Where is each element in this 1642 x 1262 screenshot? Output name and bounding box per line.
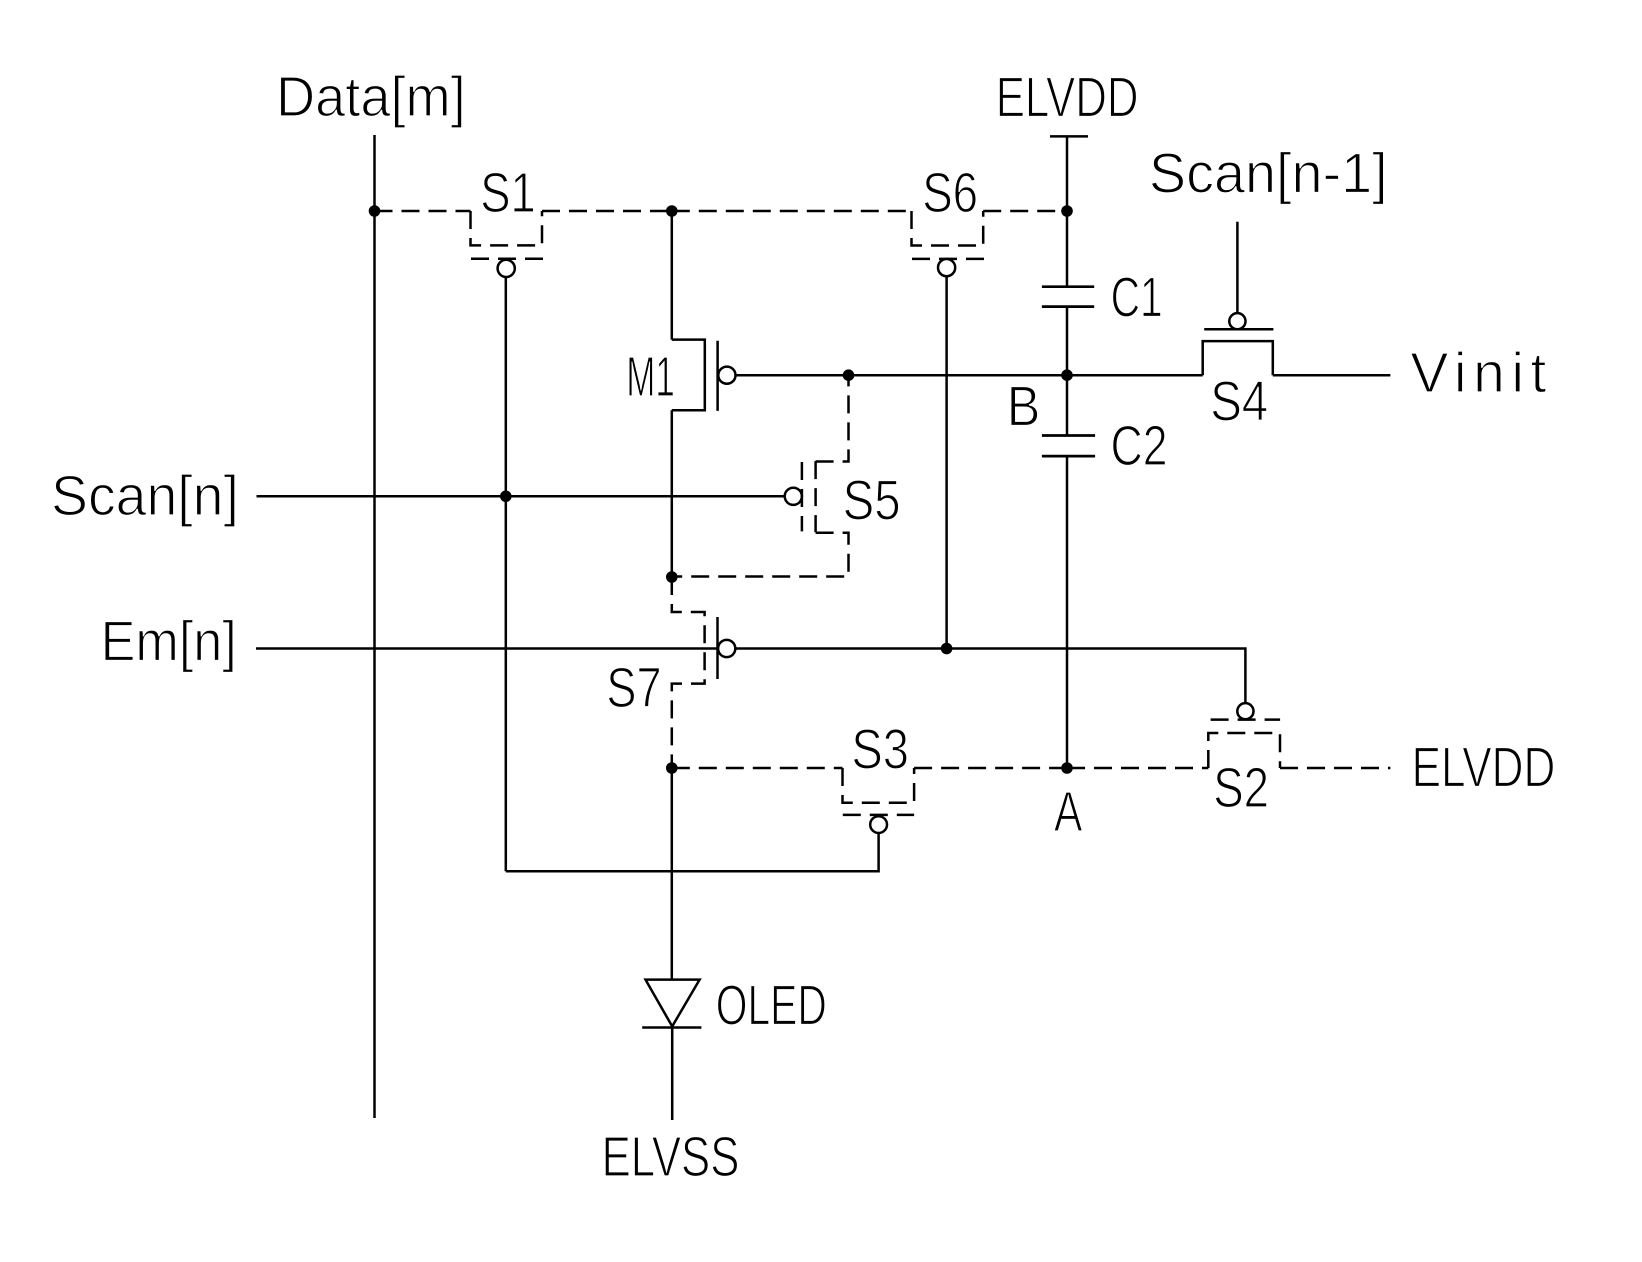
wire M1 column top — [671, 211, 674, 340]
transistor M1 gate bubble — [718, 367, 735, 384]
wire M1 gate row to S4 — [736, 374, 1203, 377]
node junction dot top of M1 column — [666, 205, 678, 217]
node junction dot S1 gate on Scan[n] — [500, 491, 512, 503]
svg-text:S6: S6 — [922, 161, 978, 225]
node junction dot S6 gate on Em[n] — [941, 643, 953, 655]
wire dashed top rail: S1 to M1 column — [542, 210, 672, 213]
node junction dot at Data/top rail — [369, 205, 381, 217]
svg-text:S5: S5 — [843, 469, 901, 533]
wire C2 down to node A — [1066, 456, 1069, 768]
svg-text:C2: C2 — [1111, 414, 1168, 478]
wire ELVDD column to C1 — [1066, 211, 1069, 287]
transistor S5 bottom lead (dashed) — [672, 533, 849, 577]
capacitor C2 bottom plate — [1042, 455, 1095, 458]
wire Data[m] vertical line — [373, 135, 376, 1118]
wire dashed bottom rail: S3 to node A — [914, 767, 1067, 770]
transistor S2 channel hat (dashed) — [1208, 733, 1280, 768]
svg-text:OLED: OLED — [716, 974, 827, 1038]
svg-text:Scan[n]: Scan[n] — [51, 464, 239, 528]
transistor S2 gate bubble — [1237, 703, 1253, 719]
node junction dot S7 drain / OLED column — [666, 762, 678, 774]
svg-text:Scan[n-1]: Scan[n-1] — [1149, 142, 1388, 206]
transistor M1 channel jog — [672, 340, 705, 411]
wire C1 to node B — [1066, 307, 1069, 376]
transistor S7 channel jog (dashed) — [672, 577, 705, 768]
transistor S6 channel (dashed) — [912, 211, 984, 246]
transistor S5 top lead (dashed) — [816, 375, 849, 461]
transistor S4 gate plate — [1204, 328, 1273, 331]
transistor S7 gate bubble — [718, 640, 735, 657]
svg-text:S2: S2 — [1213, 756, 1269, 820]
power ELVDD terminal tick — [1050, 135, 1088, 138]
node junction dot M1/S5/S7 — [666, 571, 678, 583]
svg-text:S4: S4 — [1210, 370, 1268, 434]
wire ELVDD stub down to top rail — [1066, 136, 1069, 211]
transistor S4 gate bubble — [1229, 313, 1245, 329]
svg-text:C1: C1 — [1111, 266, 1163, 330]
wire dashed bottom rail: node A to S2 — [1067, 767, 1208, 770]
wire dashed top rail: Data to S1 — [375, 210, 471, 213]
transistor M1 gate bar — [716, 341, 719, 411]
transistor S1 gate plate (dashed) — [471, 257, 543, 260]
svg-text:Em[n]: Em[n] — [101, 610, 237, 674]
wire S4 to Vinit — [1273, 374, 1391, 377]
wire dashed top rail: M1 column to S6 — [672, 210, 912, 213]
wire OLED column from bottom rail — [671, 768, 674, 980]
transistor S3 gate plate (dashed) — [843, 814, 914, 817]
svg-text:ELVDD: ELVDD — [1412, 736, 1556, 800]
svg-text:M1: M1 — [626, 345, 675, 409]
diode OLED anode triangle — [646, 980, 700, 1027]
svg-text:S3: S3 — [851, 718, 909, 782]
svg-text:B: B — [1007, 375, 1041, 439]
transistor S5 channel bar (dashed) — [814, 461, 817, 532]
wire OLED cathode to ELVSS — [671, 1028, 674, 1121]
node junction dot S5 branch — [843, 369, 855, 381]
svg-text:Data[m]: Data[m] — [276, 65, 466, 129]
wire Em[n] row left of S7 — [256, 647, 718, 650]
svg-text:S7: S7 — [606, 656, 661, 720]
wire S1 gate column down to bottom jog — [505, 277, 508, 871]
wire S3 gate tail to S1 gate column — [506, 833, 879, 871]
wire Em[n] row right of S7 to S2 gate — [735, 649, 1245, 704]
node junction dot B — [1061, 369, 1073, 381]
capacitor C2 top plate — [1042, 434, 1095, 437]
transistor S5 gate bubble — [785, 488, 802, 505]
diode OLED cathode bar — [642, 1026, 701, 1029]
transistor S6 gate plate (dashed) — [912, 258, 984, 261]
wire dashed bottom rail: S2 to ELVDD — [1280, 767, 1390, 770]
capacitor C1 top plate — [1042, 285, 1094, 288]
wire dashed bottom rail: S7 to S3 — [672, 767, 843, 770]
transistor S6 gate bubble — [938, 259, 955, 276]
node junction dot A — [1061, 762, 1073, 774]
transistor S2 gate plate (dashed) — [1211, 718, 1281, 721]
wire Scan[n] row — [257, 495, 785, 498]
transistor S1 channel (dashed) — [471, 211, 543, 245]
svg-text:S1: S1 — [480, 161, 536, 225]
wire S6 gate column down to Em[n] — [945, 276, 948, 648]
wire node B to C2 — [1066, 375, 1069, 435]
node junction dot top rail / ELVDD column — [1061, 205, 1073, 217]
capacitor C1 bottom plate — [1042, 305, 1094, 308]
transistor S3 gate bubble — [870, 816, 887, 833]
wire dashed top rail: S6 to ELVDD column — [983, 210, 1067, 213]
svg-text:A: A — [1054, 780, 1082, 844]
svg-text:ELVSS: ELVSS — [602, 1125, 740, 1189]
transistor S4 channel hat — [1203, 341, 1273, 375]
wire M1 column bottom — [671, 410, 674, 577]
transistor S7 gate bar — [716, 617, 719, 679]
transistor S3 channel (dashed) — [843, 768, 915, 803]
wire S4 gate up to Scan[n-1] — [1236, 222, 1239, 313]
svg-text:ELVDD: ELVDD — [996, 66, 1139, 130]
transistor S1 gate bubble — [498, 260, 515, 277]
transistor S5 gate bar (dashed) — [801, 462, 804, 531]
